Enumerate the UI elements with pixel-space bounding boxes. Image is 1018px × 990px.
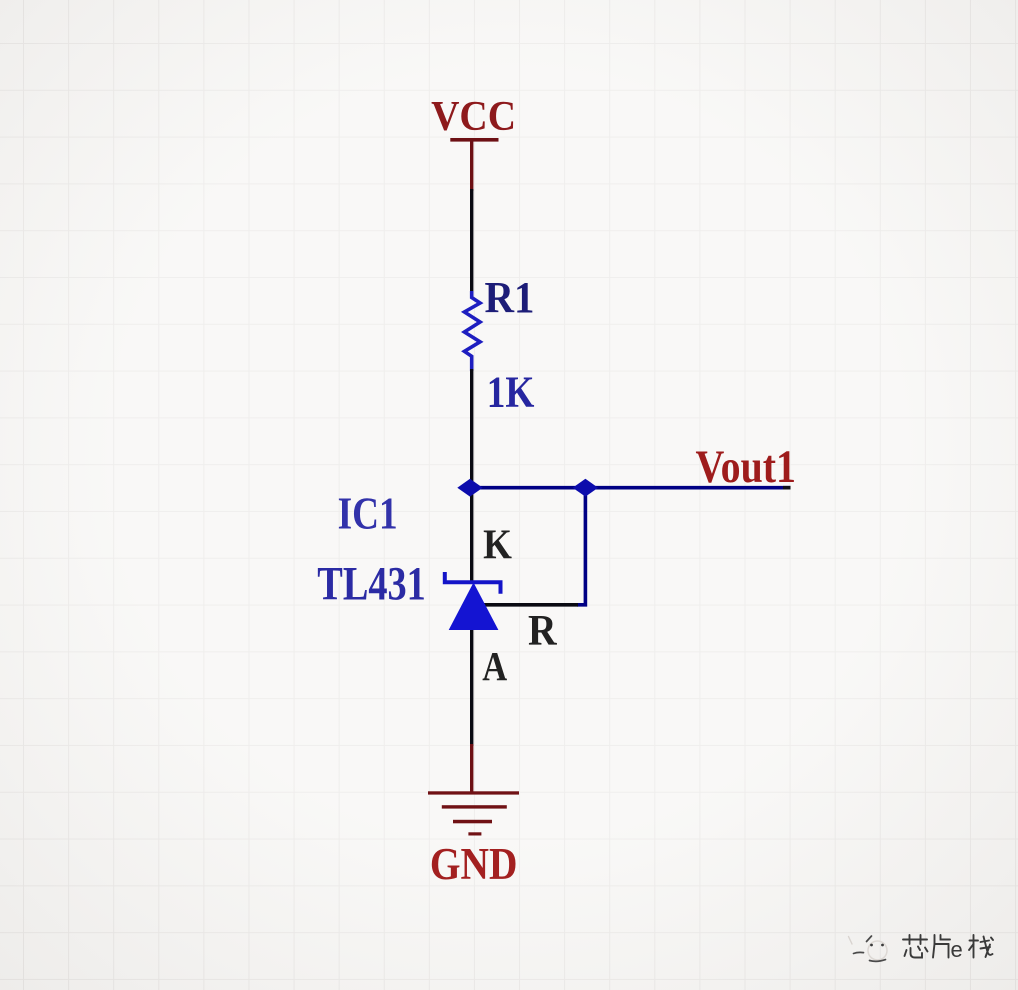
svg-text:VCC: VCC [431,93,516,140]
svg-text:K: K [483,521,512,568]
svg-text:R: R [528,606,557,654]
svg-text:A: A [482,643,507,689]
svg-text:Vout1: Vout1 [696,441,797,493]
svg-text:TL431: TL431 [317,559,426,611]
svg-text:R1: R1 [485,273,535,322]
svg-text:e: e [951,937,963,962]
svg-text:1K: 1K [487,367,535,416]
svg-text:IC1: IC1 [338,488,398,539]
svg-text:GND: GND [430,839,518,889]
